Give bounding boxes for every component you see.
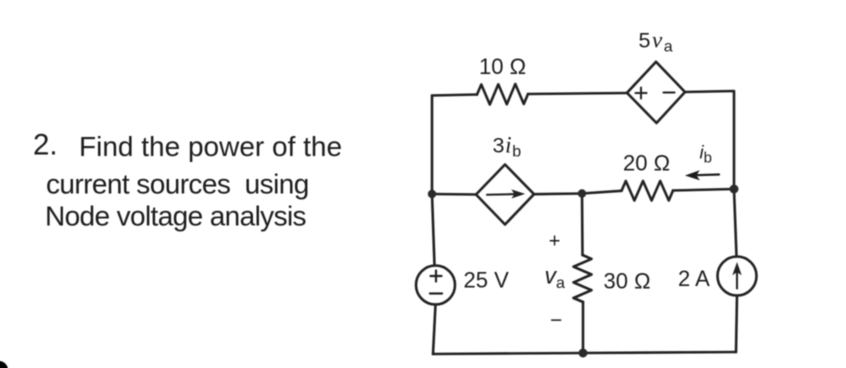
svg-text:2.: 2.: [33, 129, 58, 162]
svg-text:25 V: 25 V: [464, 268, 510, 293]
svg-text:+: +: [549, 230, 561, 252]
svg-text:current sources using: current sources using: [46, 169, 309, 200]
svg-text:Node voltage analysis: Node voltage analysis: [45, 201, 306, 232]
svg-text:2 A: 2 A: [678, 266, 710, 291]
svg-text:10 Ω: 10 Ω: [479, 54, 526, 79]
svg-text:20 Ω: 20 Ω: [623, 151, 670, 176]
svg-text:Find the power of the: Find the power of the: [79, 131, 342, 162]
svg-text:30 Ω: 30 Ω: [604, 269, 651, 294]
svg-text:−: −: [550, 309, 562, 332]
